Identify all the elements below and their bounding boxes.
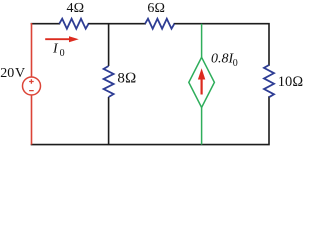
svg-text:0: 0: [60, 48, 65, 59]
svg-text:8Ω: 8Ω: [117, 70, 136, 86]
svg-text:10Ω: 10Ω: [278, 74, 304, 90]
svg-text:I: I: [52, 42, 59, 57]
svg-text:0.8I: 0.8I: [211, 51, 235, 66]
svg-text:6Ω: 6Ω: [147, 1, 165, 16]
svg-text:V: V: [15, 66, 25, 81]
svg-text:4Ω: 4Ω: [67, 1, 85, 16]
svg-text:0: 0: [233, 58, 238, 69]
svg-text:20: 20: [0, 66, 14, 81]
